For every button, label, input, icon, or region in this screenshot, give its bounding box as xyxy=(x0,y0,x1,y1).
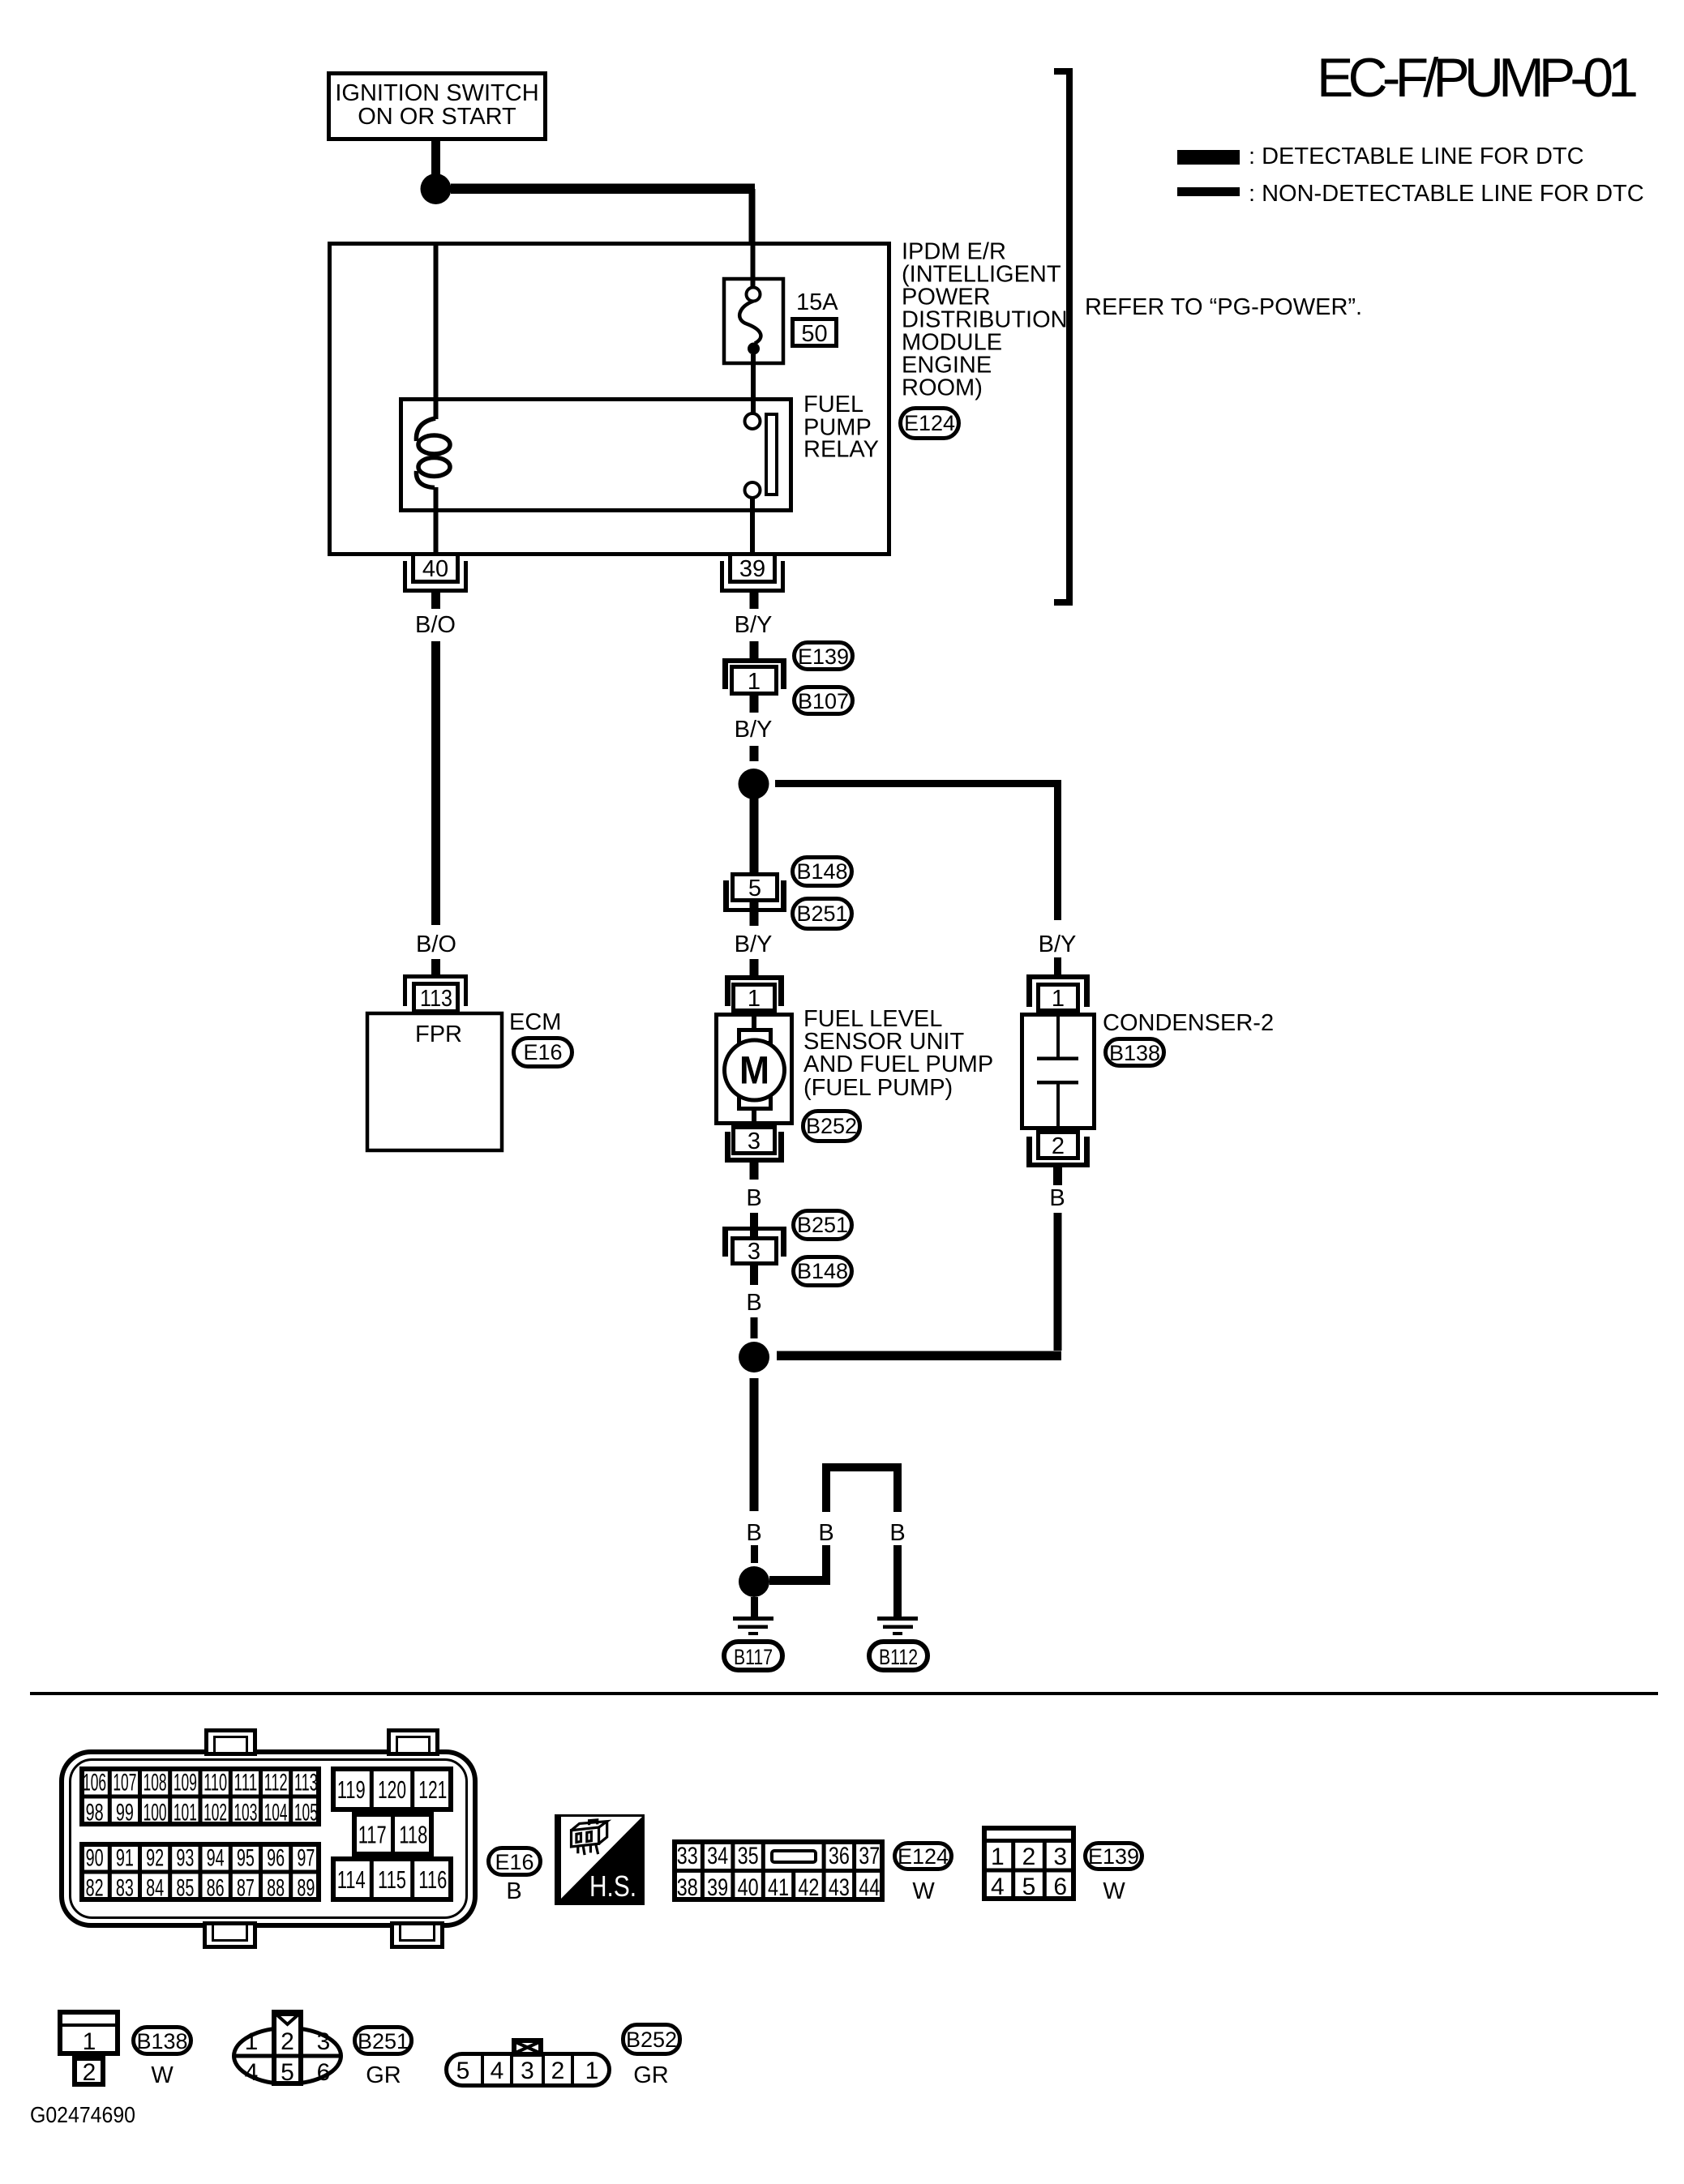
svg-text:REFER TO “PG-POWER”.: REFER TO “PG-POWER”. xyxy=(1085,294,1362,320)
E16 housing bottom tab 1 xyxy=(205,1924,255,1947)
svg-text:50: 50 xyxy=(801,321,827,347)
svg-text:84: 84 xyxy=(146,1874,164,1901)
svg-text:117: 117 xyxy=(358,1821,387,1849)
svg-text:107: 107 xyxy=(113,1769,136,1796)
svg-text:82: 82 xyxy=(86,1874,104,1901)
svg-text:6: 6 xyxy=(1053,1874,1067,1900)
svg-text:98: 98 xyxy=(86,1799,104,1826)
E124 oval connector id xyxy=(901,409,959,439)
fuse terminal dot xyxy=(748,343,760,355)
svg-text:W: W xyxy=(1103,1878,1125,1904)
svg-text:3: 3 xyxy=(748,1128,761,1154)
E16 housing top tab 2 xyxy=(389,1731,438,1754)
svg-text:37: 37 xyxy=(859,1843,880,1869)
wire below fuel pump pin 3 xyxy=(750,1163,759,1180)
svg-text:5: 5 xyxy=(456,2058,470,2084)
svg-text:88: 88 xyxy=(267,1874,285,1901)
wire relay coil to pin 40 xyxy=(434,487,439,555)
E139 oval label xyxy=(1086,1844,1142,1869)
svg-text:2: 2 xyxy=(1052,1133,1065,1159)
svg-text:120: 120 xyxy=(378,1775,406,1804)
fuse number 50 box xyxy=(793,319,837,346)
E124 oval label xyxy=(895,1844,952,1869)
wire below connector 5 xyxy=(750,902,759,926)
E16 pin block rows 106-113 / 98-105 xyxy=(82,1769,319,1824)
svg-text:(FUEL PUMP): (FUEL PUMP) xyxy=(803,1075,953,1101)
B251 connector pinout xyxy=(234,2028,341,2084)
E139 oval xyxy=(795,643,853,670)
wire pin 40 down xyxy=(431,593,440,609)
condenser bottom lead xyxy=(1056,1084,1060,1128)
E16 pin block 119-121 xyxy=(333,1769,451,1809)
svg-text:B: B xyxy=(818,1520,833,1546)
relay coil xyxy=(416,418,435,441)
svg-text:105: 105 xyxy=(294,1799,318,1826)
ground bridge staple xyxy=(822,1463,902,1471)
svg-text:4: 4 xyxy=(991,1874,1005,1900)
svg-text:91: 91 xyxy=(116,1844,134,1871)
wire IPDM top to fuse xyxy=(751,243,756,289)
svg-text:104: 104 xyxy=(264,1799,288,1826)
svg-text:B112: B112 xyxy=(879,1645,918,1669)
B251 oval xyxy=(793,899,852,929)
svg-text:RELAY: RELAY xyxy=(803,437,879,463)
junction dot C xyxy=(739,1342,769,1372)
svg-text:1: 1 xyxy=(748,986,761,1012)
wire junction B to condenser branch (horizontal) xyxy=(775,780,1061,787)
svg-text:B/Y: B/Y xyxy=(735,931,773,957)
svg-text:: DETECTABLE LINE FOR DTC: : DETECTABLE LINE FOR DTC xyxy=(1249,143,1584,169)
svg-text:95: 95 xyxy=(237,1844,255,1871)
svg-text:B: B xyxy=(746,1520,761,1546)
svg-text:B148: B148 xyxy=(797,1259,848,1283)
svg-text:4: 4 xyxy=(245,2059,259,2086)
svg-text:FPR: FPR xyxy=(415,1021,462,1047)
svg-text:EC-F/PUMP-01: EC-F/PUMP-01 xyxy=(1317,47,1639,109)
B138 oval label xyxy=(134,2028,191,2054)
B107 oval xyxy=(795,687,853,714)
svg-text:39: 39 xyxy=(707,1874,728,1901)
svg-text:2: 2 xyxy=(1022,1844,1036,1870)
svg-text:100: 100 xyxy=(144,1799,167,1826)
B148 oval 2 xyxy=(794,1257,852,1286)
svg-text:3: 3 xyxy=(748,1239,761,1265)
wire fuel pump B down to connector 3 xyxy=(750,1213,758,1236)
svg-text:FUEL: FUEL xyxy=(803,392,863,418)
svg-text:3: 3 xyxy=(317,2028,331,2055)
legend non-detectable line sample xyxy=(1177,187,1240,196)
svg-text:111: 111 xyxy=(234,1769,257,1796)
wire dash above junction B xyxy=(750,746,759,761)
svg-text:44: 44 xyxy=(859,1874,880,1901)
svg-text:: NON-DETECTABLE LINE FOR DTC: : NON-DETECTABLE LINE FOR DTC xyxy=(1249,181,1644,207)
B112 oval xyxy=(869,1642,928,1670)
svg-text:6: 6 xyxy=(317,2059,331,2086)
fuel pump body xyxy=(717,1015,792,1124)
svg-text:B: B xyxy=(746,1290,761,1316)
svg-text:92: 92 xyxy=(146,1844,164,1871)
svg-text:97: 97 xyxy=(297,1844,315,1871)
pin 39 (IPDM) xyxy=(720,561,724,593)
wire junction D to ground B117 xyxy=(751,1597,758,1617)
B252 oval xyxy=(803,1111,860,1141)
condenser pin 2 xyxy=(1039,1133,1078,1158)
B117 oval xyxy=(724,1642,782,1670)
svg-text:IGNITION SWITCH: IGNITION SWITCH xyxy=(335,80,538,106)
wire B/Y to connector 1 xyxy=(750,641,759,658)
ignition switch box xyxy=(329,74,546,139)
svg-text:B252: B252 xyxy=(806,1114,857,1138)
fuel pump upper brush xyxy=(739,1030,771,1043)
ECM connector E16 pinout xyxy=(62,1752,475,1925)
svg-text:B252: B252 xyxy=(626,2028,677,2052)
svg-text:1: 1 xyxy=(748,669,761,695)
svg-text:E139: E139 xyxy=(798,644,849,669)
svg-text:W: W xyxy=(151,2062,174,2088)
wire junction A to fuse branch (horizontal) xyxy=(451,184,755,195)
svg-text:93: 93 xyxy=(176,1844,194,1871)
wire pin 1 to motor brush xyxy=(752,1013,756,1030)
wire dash above junction D xyxy=(751,1545,758,1563)
wire B/O long xyxy=(431,641,440,925)
wire to ECM pin 113 xyxy=(431,959,440,976)
wire below connector 1 xyxy=(750,696,759,713)
svg-text:1: 1 xyxy=(585,2058,599,2084)
svg-text:B251: B251 xyxy=(796,901,847,926)
svg-text:15A: 15A xyxy=(796,289,838,315)
motor circle xyxy=(725,1040,785,1100)
wire relay contact to pin 39 xyxy=(750,498,755,555)
fuel pump lower brush xyxy=(739,1096,771,1109)
svg-text:110: 110 xyxy=(204,1769,227,1796)
svg-text:96: 96 xyxy=(267,1844,285,1871)
svg-text:1: 1 xyxy=(1052,986,1065,1012)
svg-text:B138: B138 xyxy=(136,2029,187,2053)
E16 pin block 114-116 xyxy=(333,1859,451,1899)
legend detectable line sample xyxy=(1177,150,1240,165)
svg-text:41: 41 xyxy=(768,1874,789,1901)
svg-text:3: 3 xyxy=(521,2058,534,2084)
svg-text:102: 102 xyxy=(204,1799,227,1826)
svg-text:ROOM): ROOM) xyxy=(902,375,983,401)
svg-text:ECM: ECM xyxy=(509,1009,561,1035)
svg-text:108: 108 xyxy=(144,1769,167,1796)
condenser body xyxy=(1022,1015,1095,1128)
svg-text:2: 2 xyxy=(551,2058,565,2084)
svg-text:103: 103 xyxy=(234,1799,257,1826)
connector 3 (B251/B148) xyxy=(722,1227,786,1231)
svg-text:40: 40 xyxy=(738,1874,759,1901)
svg-text:99: 99 xyxy=(116,1799,134,1826)
wire junction B to connector 5 xyxy=(750,798,759,872)
ECM box xyxy=(367,1013,502,1150)
svg-text:34: 34 xyxy=(707,1843,728,1869)
E16 housing bottom tab 2 xyxy=(392,1924,443,1947)
svg-text:113: 113 xyxy=(294,1769,318,1796)
svg-text:119: 119 xyxy=(337,1775,366,1804)
wire IPDM top to relay coil xyxy=(434,243,439,419)
svg-text:118: 118 xyxy=(399,1821,427,1849)
svg-text:B138: B138 xyxy=(1109,1041,1160,1065)
B252 connector pinout xyxy=(447,2054,610,2086)
fuse terminal circle xyxy=(747,288,761,302)
junction dot D xyxy=(739,1566,769,1597)
svg-text:101: 101 xyxy=(174,1799,197,1826)
connector 5 (B148/B251) xyxy=(733,875,778,901)
wire fuse to relay contact xyxy=(751,354,756,414)
svg-text:B/O: B/O xyxy=(415,612,456,638)
condenser top plate xyxy=(1037,1057,1078,1061)
svg-text:GR: GR xyxy=(366,2062,401,2088)
B148 oval xyxy=(793,858,852,886)
svg-text:GR: GR xyxy=(633,2062,669,2088)
fuel pump pin 1 xyxy=(725,975,784,980)
wire pin 39 down xyxy=(750,593,759,609)
wire dash above junction C xyxy=(751,1317,758,1338)
wire to fuel pump pin 1 xyxy=(750,959,759,976)
condenser pin 1 xyxy=(1026,974,1090,979)
svg-text:CONDENSER-2: CONDENSER-2 xyxy=(1103,1010,1274,1036)
fuel pump pin 3 xyxy=(734,1128,775,1154)
svg-text:2: 2 xyxy=(281,2028,294,2055)
svg-text:3: 3 xyxy=(1053,1844,1067,1870)
E16 pin block rows 90-97 / 82-89 xyxy=(82,1844,319,1899)
E16 pin block 117-118 xyxy=(354,1814,431,1854)
wire condenser branch down xyxy=(1054,780,1061,920)
svg-text:43: 43 xyxy=(829,1874,850,1901)
E16 housing top tab 1 xyxy=(207,1731,255,1754)
svg-text:G02474690: G02474690 xyxy=(30,2102,135,2127)
svg-text:E139: E139 xyxy=(1088,1844,1139,1869)
svg-text:E124: E124 xyxy=(898,1844,949,1869)
svg-text:M: M xyxy=(739,1050,769,1093)
svg-text:121: 121 xyxy=(418,1775,447,1804)
svg-text:B148: B148 xyxy=(796,859,847,884)
B251 oval label xyxy=(355,2028,412,2054)
B252 oval label xyxy=(623,2025,680,2054)
bracket refer to PG-POWER xyxy=(1054,71,1069,602)
condenser top lead xyxy=(1056,1016,1060,1057)
svg-text:1: 1 xyxy=(245,2028,259,2055)
svg-text:B: B xyxy=(506,1878,521,1904)
svg-text:39: 39 xyxy=(739,556,765,582)
relay contact lower terminal xyxy=(745,482,761,498)
svg-text:B251: B251 xyxy=(797,1213,848,1237)
pin 113 (ECM) xyxy=(403,974,468,979)
IPDM E/R box xyxy=(330,244,889,555)
ground symbol B112 xyxy=(877,1617,918,1621)
svg-text:35: 35 xyxy=(738,1843,759,1869)
B138 connector pinout xyxy=(60,2012,118,2053)
svg-text:83: 83 xyxy=(116,1874,134,1901)
svg-text:40: 40 xyxy=(422,556,448,582)
junction dot A xyxy=(421,173,452,204)
svg-text:1: 1 xyxy=(991,1844,1005,1870)
pin 40 (IPDM) xyxy=(403,561,407,593)
wire right B to ground B112 xyxy=(893,1545,902,1617)
svg-text:B/O: B/O xyxy=(416,931,456,957)
svg-text:B117: B117 xyxy=(734,1645,773,1669)
relay contact upper terminal xyxy=(745,413,761,429)
junction dot B xyxy=(739,769,769,799)
svg-text:33: 33 xyxy=(677,1843,698,1869)
svg-text:89: 89 xyxy=(297,1874,315,1901)
separator line xyxy=(30,1692,1658,1695)
svg-text:115: 115 xyxy=(378,1865,406,1894)
svg-text:2: 2 xyxy=(83,2059,96,2086)
connector 1 (E139/B107) xyxy=(722,658,786,663)
svg-text:113: 113 xyxy=(420,986,452,1012)
svg-text:87: 87 xyxy=(237,1874,255,1901)
svg-text:AND FUEL PUMP: AND FUEL PUMP xyxy=(803,1051,993,1077)
svg-text:42: 42 xyxy=(798,1874,819,1901)
wire to condenser pin 1 xyxy=(1054,957,1061,975)
svg-text:E124: E124 xyxy=(904,411,955,435)
svg-text:E16: E16 xyxy=(523,1040,562,1064)
B138 oval xyxy=(1106,1039,1164,1066)
svg-text:E16: E16 xyxy=(495,1850,533,1874)
svg-text:ON OR START: ON OR START xyxy=(358,104,516,130)
svg-text:5: 5 xyxy=(1022,1874,1036,1900)
svg-text:112: 112 xyxy=(264,1769,288,1796)
svg-text:B251: B251 xyxy=(358,2029,409,2053)
svg-text:B107: B107 xyxy=(798,689,849,713)
svg-text:5: 5 xyxy=(748,876,761,901)
svg-text:38: 38 xyxy=(677,1874,698,1901)
wire junction C to condenser branch (horizontal) xyxy=(777,1351,1061,1361)
wire below junction C xyxy=(750,1378,759,1511)
E124 connector pinout xyxy=(675,1842,882,1899)
svg-text:94: 94 xyxy=(207,1844,225,1871)
svg-text:109: 109 xyxy=(174,1769,197,1796)
H.S. hood symbol xyxy=(556,1816,644,1904)
svg-text:W: W xyxy=(912,1878,935,1904)
svg-text:B: B xyxy=(1049,1185,1065,1211)
svg-text:36: 36 xyxy=(829,1843,850,1869)
wire middle B to junction D xyxy=(822,1545,830,1585)
svg-text:106: 106 xyxy=(83,1769,106,1796)
relay contact bar xyxy=(766,414,777,495)
svg-text:5: 5 xyxy=(281,2059,294,2086)
svg-text:1: 1 xyxy=(83,2028,96,2055)
wire below condenser pin 2 xyxy=(1053,1167,1062,1185)
fuse 15A box xyxy=(724,279,783,363)
wire ignition switch to junction A xyxy=(431,141,440,190)
svg-text:85: 85 xyxy=(176,1874,194,1901)
svg-text:114: 114 xyxy=(337,1865,366,1894)
E139 connector pinout xyxy=(984,1828,1073,1899)
svg-text:90: 90 xyxy=(86,1844,104,1871)
condenser bottom plate xyxy=(1037,1081,1078,1085)
svg-text:86: 86 xyxy=(207,1874,225,1901)
svg-text:4: 4 xyxy=(491,2058,504,2084)
wire below connector 3 xyxy=(750,1265,758,1285)
svg-text:B/Y: B/Y xyxy=(735,612,773,638)
E16 oval xyxy=(489,1848,541,1875)
wire motor to pin 3 xyxy=(752,1109,756,1128)
fuse element S-curve xyxy=(739,302,761,344)
svg-text:116: 116 xyxy=(418,1865,447,1894)
svg-text:H.S.: H.S. xyxy=(589,1869,636,1903)
wire condenser branch down to junction C xyxy=(1054,1213,1062,1351)
E16 oval connector id xyxy=(514,1038,572,1067)
svg-text:B: B xyxy=(746,1185,761,1211)
wire fuse branch down to IPDM xyxy=(749,189,756,242)
svg-text:B/Y: B/Y xyxy=(735,717,773,743)
svg-text:B: B xyxy=(889,1520,905,1546)
ground symbol B117 xyxy=(733,1617,773,1621)
fuel pump relay box xyxy=(401,400,791,511)
svg-text:B/Y: B/Y xyxy=(1039,931,1077,957)
B251 oval 2 xyxy=(794,1211,852,1240)
